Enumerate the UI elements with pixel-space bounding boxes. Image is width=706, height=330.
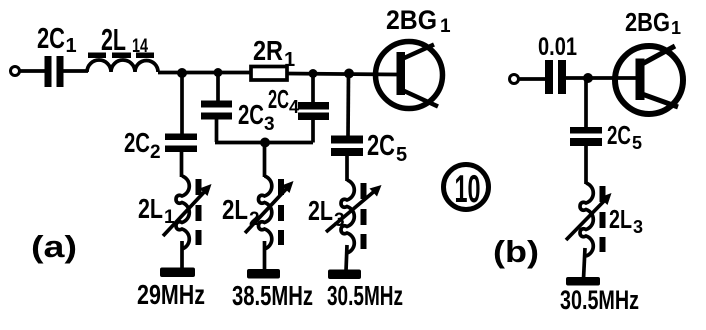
- svg-text:1: 1: [440, 16, 451, 37]
- svg-text:38.5MHz: 38.5MHz: [232, 280, 313, 311]
- capacitor 2C5 (b): [570, 127, 602, 146]
- inductor 2L3 (a, variable): [341, 180, 354, 253]
- svg-text:2C: 2C: [238, 99, 264, 130]
- inductor 2L1 (variable): [176, 176, 189, 249]
- capacitor 2C1: [45, 56, 64, 87]
- ground bar (30.5MHz b): [566, 277, 600, 286]
- wire junction horizontal: [215, 141, 313, 145]
- wire 2C5 to 2L3 (b): [584, 145, 588, 184]
- inductor 2L2 (variable): [259, 176, 272, 249]
- wire node F down to 2C5 (b): [584, 78, 588, 128]
- node B (junction 2C3 branch): [214, 68, 223, 77]
- svg-text:3: 3: [264, 114, 275, 135]
- svg-text:2: 2: [249, 209, 260, 230]
- svg-text:3: 3: [633, 217, 643, 237]
- svg-text:2L: 2L: [308, 195, 333, 226]
- wire 0.01 cap to transistor base (b): [566, 76, 638, 80]
- transistor 2BG1 (b): [615, 46, 683, 114]
- svg-text:2C: 2C: [124, 127, 150, 158]
- core bars of 2L14: [88, 53, 154, 59]
- figure number 10: [444, 165, 489, 212]
- wire node B down to 2C3: [216, 73, 220, 102]
- wire 2C4 bottom to junction wire: [311, 119, 315, 143]
- capacitor 2C5 (a): [331, 136, 363, 157]
- label 2C5 (a): [367, 130, 407, 166]
- svg-text:2: 2: [150, 142, 161, 163]
- label 2L1: [138, 193, 175, 228]
- label 2C5 (b): [607, 120, 642, 153]
- svg-text:14: 14: [132, 36, 148, 57]
- node D (junction 2C5 branch): [344, 69, 354, 79]
- svg-text:29MHz: 29MHz: [137, 279, 205, 310]
- svg-text:2L: 2L: [222, 194, 248, 225]
- label 2R1: [253, 35, 295, 71]
- svg-text:5: 5: [632, 133, 642, 153]
- capacitor 0.01 (b): [545, 60, 566, 94]
- svg-text:10: 10: [455, 168, 481, 211]
- svg-text:2C: 2C: [367, 130, 395, 162]
- svg-text:30.5MHz: 30.5MHz: [560, 285, 639, 315]
- core bars of 2L3 (a): [361, 183, 367, 249]
- ground bar (30.5MHz a): [328, 270, 361, 280]
- node E (junction to 2L2): [260, 138, 270, 148]
- wire 2C3 bottom to junction wire: [215, 118, 219, 142]
- adjust arrow of 2L3 (b): [566, 193, 612, 240]
- core bars of 2L2: [278, 179, 284, 245]
- ground bar (38.5MHz): [247, 269, 280, 279]
- svg-text:(a): (a): [31, 229, 77, 264]
- input terminal (a): [11, 67, 20, 76]
- wire 2L14 to resistor 2R1: [158, 71, 251, 75]
- wire input to 2C1: [20, 69, 45, 73]
- svg-text:0.01: 0.01: [538, 33, 577, 61]
- label 2L2: [222, 194, 260, 230]
- svg-text:2C: 2C: [268, 84, 289, 114]
- svg-text:(b): (b): [493, 234, 539, 269]
- label 2C2: [124, 127, 161, 163]
- wire 2C2 to 2L1: [180, 151, 184, 177]
- capacitor 2C4: [298, 102, 329, 120]
- label 2C3: [238, 99, 275, 135]
- svg-text:1: 1: [284, 49, 295, 71]
- svg-text:2R: 2R: [253, 35, 283, 66]
- svg-text:5: 5: [396, 144, 407, 166]
- node C (junction 2C4 branch): [309, 69, 318, 78]
- inductor 2L14: [87, 60, 158, 72]
- label 2BG1 (a): [386, 5, 451, 37]
- svg-text:3: 3: [334, 210, 345, 231]
- wire 2L3 to ground (b): [584, 248, 586, 279]
- core bars of 2L3 (b): [600, 186, 606, 252]
- wire node D down to 2C5: [346, 74, 350, 138]
- label 2C4: [268, 84, 299, 117]
- adjust arrow of 2L3 (a): [326, 185, 382, 232]
- wire 2L1 to ground: [180, 241, 184, 269]
- wire node C down to 2C4: [311, 74, 315, 104]
- capacitor 2C3: [201, 101, 232, 120]
- svg-text:2C: 2C: [37, 23, 65, 55]
- wire 2L3 to ground (a): [346, 245, 347, 271]
- node A (junction 2C2 branch): [177, 68, 187, 78]
- svg-text:1: 1: [671, 18, 681, 38]
- transistor 2BG1 (a): [376, 42, 443, 109]
- wire 2C5 to 2L3 (a): [345, 155, 349, 181]
- wire 2R1 to transistor base: [287, 74, 399, 75]
- svg-text:2C: 2C: [607, 120, 631, 150]
- wire input to 0.01 cap (b): [519, 77, 546, 81]
- svg-text:30.5MHz: 30.5MHz: [327, 280, 403, 311]
- node F (junction 2C5 branch b): [583, 73, 593, 83]
- input terminal (b): [510, 75, 519, 84]
- ground bar (29MHz): [160, 268, 195, 278]
- wire 2L2 to ground: [263, 241, 267, 271]
- wire node A down to 2C2: [180, 73, 184, 135]
- label 2L3 (b): [609, 204, 643, 237]
- svg-text:2L: 2L: [609, 204, 632, 234]
- capacitor 2C2: [165, 134, 197, 153]
- svg-text:2L: 2L: [138, 193, 163, 224]
- inductor 2L3 (b, variable): [580, 183, 593, 256]
- adjust arrow of 2L1: [163, 184, 212, 236]
- svg-text:2L: 2L: [101, 22, 126, 57]
- svg-text:1: 1: [66, 35, 77, 57]
- svg-text:2BG: 2BG: [625, 7, 670, 37]
- label 2L14: [101, 22, 148, 57]
- svg-text:2BG: 2BG: [386, 5, 437, 35]
- core bars of 2L1: [196, 179, 202, 245]
- resistor 2R1: [251, 67, 287, 81]
- wire node E to 2L2: [263, 143, 267, 178]
- svg-text:1: 1: [164, 207, 175, 228]
- wire 2C1 to 2L14: [63, 69, 88, 73]
- label 2L3 (a): [308, 195, 345, 231]
- label 2C1: [37, 23, 77, 57]
- label 2BG1 (b): [625, 7, 681, 38]
- adjust arrow of 2L2: [245, 181, 294, 233]
- svg-text:4: 4: [289, 97, 299, 117]
